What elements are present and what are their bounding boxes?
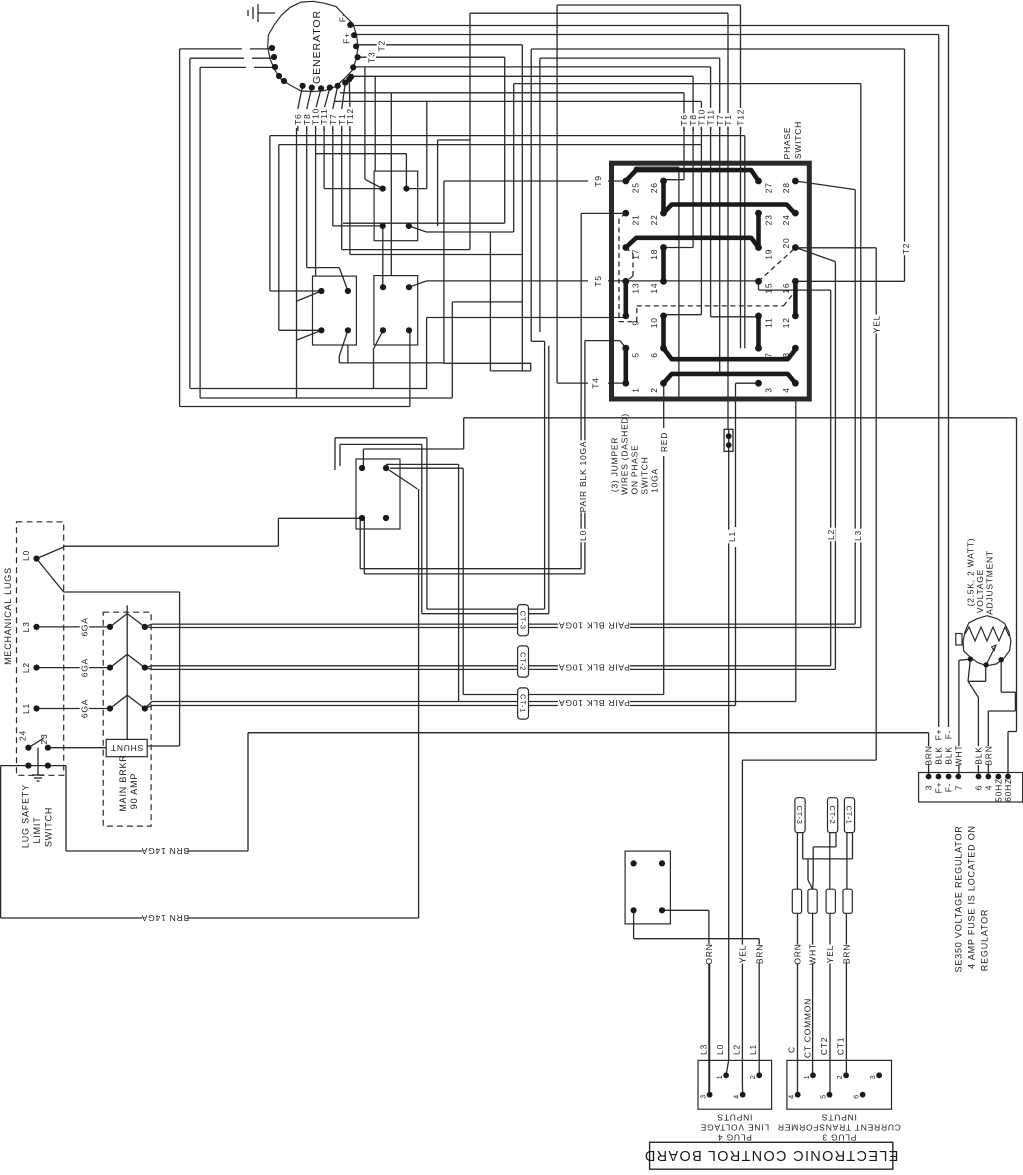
svg-text:6: 6	[649, 352, 659, 358]
svg-text:L2: L2	[21, 662, 31, 673]
svg-text:BRN: BRN	[924, 745, 934, 765]
svg-text:20: 20	[781, 238, 791, 249]
svg-text:24: 24	[17, 730, 27, 741]
svg-text:L3: L3	[853, 530, 863, 541]
svg-text:CT-3: CT-3	[795, 806, 804, 825]
svg-text:28: 28	[781, 182, 791, 193]
svg-text:CT-1: CT-1	[518, 694, 527, 713]
svg-text:6: 6	[854, 1094, 861, 1099]
svg-text:F+: F+	[934, 729, 944, 741]
svg-text:SWITCH: SWITCH	[640, 456, 650, 494]
svg-text:CT-2: CT-2	[828, 806, 837, 825]
svg-text:SE350 VOLTAGE REGULATOR: SE350 VOLTAGE REGULATOR	[953, 825, 963, 972]
svg-text:3: 3	[763, 387, 773, 393]
svg-text:ORN: ORN	[793, 943, 803, 964]
svg-text:WHT: WHT	[953, 745, 963, 767]
svg-text:T12: T12	[345, 108, 355, 125]
svg-text:F-: F-	[944, 783, 954, 793]
svg-text:4: 4	[983, 785, 993, 791]
svg-text:10GA: 10GA	[650, 468, 660, 493]
svg-text:23: 23	[763, 214, 773, 225]
svg-text:L1: L1	[727, 531, 737, 542]
svg-text:L0: L0	[21, 550, 31, 561]
svg-text:LIMIT: LIMIT	[32, 816, 42, 843]
svg-text:21: 21	[631, 214, 641, 225]
svg-text:26: 26	[649, 182, 659, 193]
svg-text:CT-1: CT-1	[845, 806, 854, 825]
svg-text:BLK: BLK	[944, 746, 954, 764]
svg-text:17: 17	[631, 249, 641, 260]
svg-text:LINE VOLTAGE: LINE VOLTAGE	[700, 1122, 769, 1132]
svg-text:9: 9	[631, 320, 641, 326]
svg-text:PLUG 3: PLUG 3	[822, 1132, 857, 1142]
svg-text:10: 10	[649, 317, 659, 328]
svg-text:ORN: ORN	[704, 943, 714, 964]
svg-text:1: 1	[631, 387, 641, 393]
svg-text:SWITCH: SWITCH	[793, 121, 803, 159]
svg-text:PAIR BLK 10GA: PAIR BLK 10GA	[558, 662, 630, 672]
svg-text:PLUG 4: PLUG 4	[717, 1132, 752, 1142]
svg-text:ON PHASE: ON PHASE	[630, 444, 640, 494]
svg-text:3: 3	[701, 1094, 708, 1099]
svg-text:CT1: CT1	[836, 1037, 846, 1055]
svg-text:15: 15	[763, 283, 773, 294]
svg-text:T4: T4	[591, 377, 601, 388]
svg-text:SWITCH: SWITCH	[43, 807, 53, 847]
svg-text:BRN 14GA: BRN 14GA	[141, 846, 189, 856]
svg-text:4: 4	[781, 387, 791, 393]
svg-text:L3: L3	[699, 1044, 709, 1055]
svg-text:25: 25	[631, 182, 641, 193]
svg-text:T9: T9	[593, 175, 603, 186]
svg-text:13: 13	[631, 283, 641, 294]
svg-text:WIRES (DASHED): WIRES (DASHED)	[620, 413, 630, 495]
svg-text:16: 16	[781, 283, 791, 294]
svg-text:T12: T12	[736, 109, 746, 126]
svg-text:CURRENT TRANSFORMER: CURRENT TRANSFORMER	[777, 1122, 901, 1132]
svg-text:SHUNT: SHUNT	[110, 743, 143, 753]
svg-text:T3: T3	[366, 52, 376, 63]
svg-text:L2: L2	[826, 529, 836, 540]
svg-text:60HZ: 60HZ	[1003, 778, 1013, 802]
svg-text:5: 5	[631, 352, 641, 358]
svg-text:1: 1	[804, 1075, 811, 1080]
svg-text:BRN 14GA: BRN 14GA	[141, 913, 189, 923]
svg-text:19: 19	[763, 249, 773, 260]
svg-text:L1: L1	[748, 1044, 758, 1055]
svg-text:50HZ: 50HZ	[993, 778, 1003, 802]
svg-text:GENERATOR: GENERATOR	[311, 10, 323, 84]
svg-text:C: C	[787, 1046, 797, 1053]
svg-text:CT2: CT2	[819, 1037, 829, 1055]
svg-text:24: 24	[781, 214, 791, 225]
svg-text:F+: F+	[342, 32, 352, 44]
svg-text:L3: L3	[21, 621, 31, 632]
svg-text:3: 3	[870, 1075, 877, 1080]
svg-text:CT-2: CT-2	[518, 652, 527, 671]
svg-text:3: 3	[924, 785, 934, 791]
svg-text:BLK: BLK	[934, 746, 944, 764]
svg-text:6GA: 6GA	[80, 658, 90, 677]
svg-text:L2: L2	[732, 1044, 742, 1055]
svg-text:YEL: YEL	[737, 945, 747, 963]
svg-text:YEL: YEL	[825, 945, 835, 963]
svg-text:PAIR BLK 10GA: PAIR BLK 10GA	[578, 441, 588, 513]
svg-text:4 AMP FUSE IS LOCATED ON: 4 AMP FUSE IS LOCATED ON	[966, 825, 976, 969]
svg-text:1: 1	[717, 1075, 724, 1080]
svg-text:7: 7	[953, 785, 963, 791]
svg-text:F-: F-	[338, 13, 348, 23]
svg-text:ADJUSTMENT: ADJUSTMENT	[984, 550, 994, 615]
svg-text:LUG SAFETY: LUG SAFETY	[20, 784, 30, 848]
svg-text:PAIR BLK 10GA: PAIR BLK 10GA	[558, 698, 630, 708]
svg-text:F-: F-	[944, 730, 954, 740]
svg-text:MAIN BRKR: MAIN BRKR	[118, 754, 128, 811]
svg-text:5: 5	[821, 1094, 828, 1099]
svg-text:12: 12	[781, 317, 791, 328]
svg-text:BLK: BLK	[974, 746, 984, 764]
svg-text:8: 8	[781, 352, 791, 358]
svg-text:L1: L1	[21, 703, 31, 714]
svg-text:CT COMMON: CT COMMON	[803, 998, 813, 1058]
svg-text:BRN: BRN	[841, 944, 851, 964]
svg-text:11: 11	[763, 318, 773, 328]
svg-text:(3) JUMPER: (3) JUMPER	[610, 437, 620, 492]
svg-text:4: 4	[789, 1094, 796, 1099]
svg-text:2: 2	[837, 1075, 844, 1080]
svg-text:T1: T1	[723, 114, 733, 125]
svg-text:F+: F+	[934, 782, 944, 794]
svg-text:27: 27	[763, 182, 773, 193]
svg-text:RED: RED	[659, 432, 669, 452]
svg-text:BRN: BRN	[754, 944, 764, 964]
svg-text:T5: T5	[593, 275, 603, 286]
svg-text:CT-3: CT-3	[518, 611, 527, 630]
svg-text:INPUTS: INPUTS	[717, 1112, 753, 1122]
svg-text:6GA: 6GA	[80, 617, 90, 636]
svg-text:90 AMP: 90 AMP	[129, 773, 139, 809]
svg-text:MECHANICAL LUGS: MECHANICAL LUGS	[3, 567, 13, 665]
svg-text:6GA: 6GA	[80, 699, 90, 718]
svg-text:2: 2	[649, 387, 659, 393]
svg-text:T2: T2	[901, 243, 911, 254]
svg-text:PHASE: PHASE	[782, 127, 792, 160]
svg-text:4: 4	[734, 1094, 741, 1099]
svg-text:23: 23	[39, 734, 49, 745]
svg-text:INPUTS: INPUTS	[821, 1112, 857, 1122]
svg-text:6: 6	[974, 785, 984, 791]
svg-text:ELECTRONIC CONTROL BOARD: ELECTRONIC CONTROL BOARD	[644, 1147, 899, 1163]
svg-text:YEL: YEL	[871, 315, 881, 333]
svg-text:WHT: WHT	[808, 943, 818, 965]
svg-text:7: 7	[763, 352, 773, 358]
svg-text:L0: L0	[715, 1044, 725, 1055]
svg-text:14: 14	[649, 283, 659, 294]
svg-text:22: 22	[649, 214, 659, 225]
svg-text:T2: T2	[377, 40, 387, 51]
svg-text:18: 18	[649, 249, 659, 260]
svg-text:BRN: BRN	[983, 745, 993, 765]
svg-text:2: 2	[750, 1075, 757, 1080]
svg-text:PAIR BLK 10GA: PAIR BLK 10GA	[558, 621, 630, 631]
svg-text:REGULATOR: REGULATOR	[979, 909, 989, 971]
svg-text:L0: L0	[578, 530, 588, 541]
